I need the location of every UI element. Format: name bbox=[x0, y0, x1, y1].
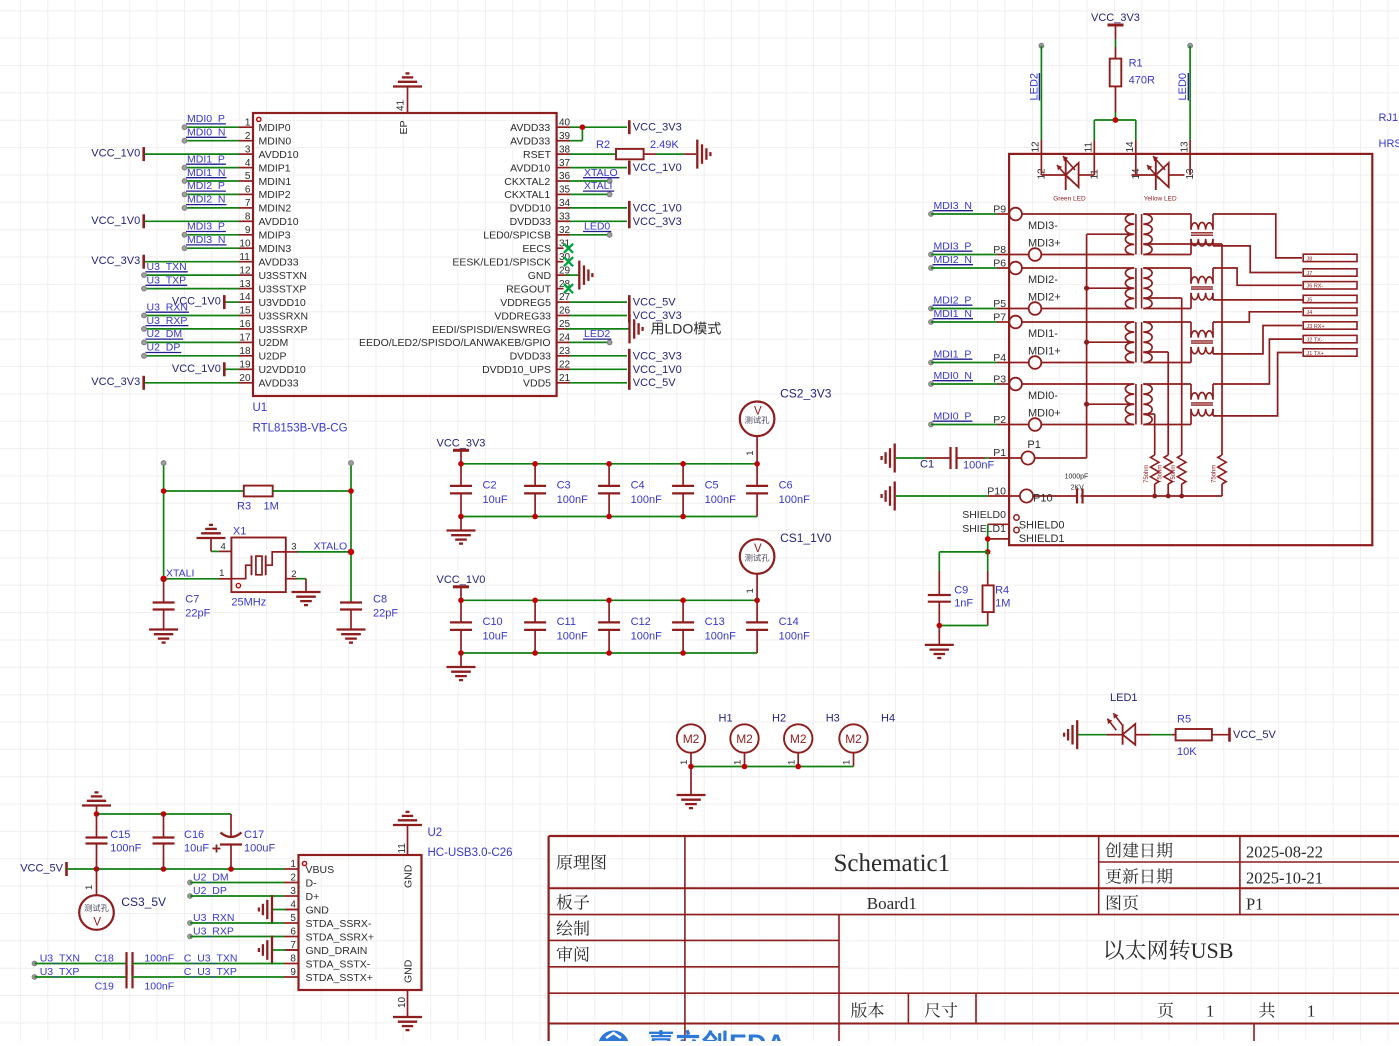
svg-text:V: V bbox=[754, 543, 762, 555]
resistor R4 1M bbox=[987, 552, 989, 571]
svg-text:U3VDD10: U3VDD10 bbox=[259, 297, 306, 309]
transformer T1 bbox=[1125, 214, 1134, 255]
svg-text:SHIELD1: SHIELD1 bbox=[1019, 533, 1065, 545]
svg-text:2.49K: 2.49K bbox=[650, 139, 679, 151]
ground at pin 11 bbox=[393, 824, 422, 826]
svg-text:MDIP1: MDIP1 bbox=[259, 162, 291, 174]
svg-text:VCC_5V: VCC_5V bbox=[633, 297, 676, 309]
svg-text:100nF: 100nF bbox=[705, 630, 736, 642]
svg-text:23: 23 bbox=[559, 346, 571, 357]
pin J5 bbox=[1303, 295, 1357, 302]
connector RJ1 HR911105A box bbox=[1009, 154, 1372, 545]
test point CS2_3V3 bbox=[740, 402, 775, 437]
primary center-tap bus to P1 bbox=[1086, 234, 1088, 458]
svg-text:C18: C18 bbox=[95, 952, 114, 964]
svg-text:35: 35 bbox=[559, 185, 571, 196]
svg-text:2: 2 bbox=[291, 569, 296, 580]
resistor 75ohm bbox=[1164, 455, 1172, 484]
choke CH3 leads bbox=[1143, 321, 1191, 323]
U1 pin 33 DVDD33 bbox=[557, 220, 570, 222]
svg-text:C14: C14 bbox=[779, 616, 799, 628]
pin40/39 VCC_3V3 bbox=[570, 126, 627, 128]
svg-text:LED0/SPICSB: LED0/SPICSB bbox=[483, 230, 551, 242]
power flag VCC_3V3 pin 23 bbox=[570, 355, 627, 357]
svg-text:37: 37 bbox=[559, 158, 571, 169]
capacitor C10 10uF bbox=[460, 600, 462, 622]
svg-text:470R: 470R bbox=[1129, 75, 1155, 87]
svg-text:MDI0_P: MDI0_P bbox=[934, 410, 972, 422]
svg-text:C15: C15 bbox=[110, 829, 130, 841]
svg-text:U3_TXP: U3_TXP bbox=[147, 274, 187, 286]
svg-text:P6: P6 bbox=[993, 258, 1006, 270]
wire to J pin bbox=[1213, 312, 1302, 322]
power flag VCC_1V0 pin 19 bbox=[224, 368, 239, 370]
svg-text:4: 4 bbox=[221, 541, 226, 552]
svg-text:C16: C16 bbox=[184, 829, 204, 841]
svg-text:VCC_5V: VCC_5V bbox=[633, 377, 676, 389]
capacitor 1000pF 2KV bbox=[1076, 489, 1078, 504]
choke CH1 bbox=[1191, 222, 1213, 229]
wire cap top rail bbox=[97, 813, 232, 815]
wire + net label U3_TXP bbox=[144, 288, 239, 290]
svg-text:8: 8 bbox=[245, 212, 251, 223]
svg-text:MDI1_N: MDI1_N bbox=[187, 167, 226, 179]
svg-text:75ohm: 75ohm bbox=[1171, 465, 1177, 483]
svg-text:C12: C12 bbox=[631, 616, 651, 628]
pin P3 net MDI0_N bbox=[929, 382, 934, 387]
U1 pin 23 DVDD33 bbox=[557, 355, 570, 357]
svg-text:22pF: 22pF bbox=[373, 608, 398, 620]
ground bbox=[460, 653, 462, 667]
svg-text:C4: C4 bbox=[631, 480, 645, 492]
svg-text:LED1: LED1 bbox=[1110, 692, 1138, 704]
svg-text:VCC_1V0: VCC_1V0 bbox=[91, 148, 140, 160]
wire right vertical bbox=[350, 463, 352, 603]
svg-text:MDI3_P: MDI3_P bbox=[187, 221, 225, 233]
ground at P10 bbox=[894, 482, 896, 511]
capacitor C5 100nF bbox=[682, 464, 684, 486]
U1 pin 40 AVDD33 bbox=[557, 126, 570, 128]
power flag VCC_1V0 pin 3 bbox=[144, 153, 239, 155]
svg-text:5: 5 bbox=[290, 913, 296, 924]
svg-text:LED2: LED2 bbox=[1028, 73, 1040, 101]
chip U1 RTL8153B-VB-CG bbox=[253, 113, 557, 396]
svg-text:U2_DM: U2_DM bbox=[147, 328, 183, 340]
svg-text:36: 36 bbox=[559, 171, 571, 182]
U2 pin 10 GND bottom bbox=[407, 990, 409, 1017]
svg-text:MDIN3: MDIN3 bbox=[259, 243, 292, 255]
svg-text:U3SSRXP: U3SSRXP bbox=[259, 324, 308, 336]
primary center tap T4 bbox=[1087, 403, 1135, 405]
svg-text:U3_TXP: U3_TXP bbox=[40, 966, 80, 978]
svg-text:MDI0_N: MDI0_N bbox=[934, 370, 973, 382]
wire to J pin bbox=[1213, 214, 1302, 258]
ground for mounting holes bbox=[690, 767, 692, 796]
pin P9 net MDI3_N bbox=[929, 212, 934, 217]
svg-text:GND_DRAIN: GND_DRAIN bbox=[306, 945, 368, 957]
svg-text:5: 5 bbox=[245, 171, 251, 182]
wire + net label XTALO bbox=[570, 180, 610, 182]
U1 pin 20 AVDD33 bbox=[239, 382, 253, 384]
svg-text:100nF: 100nF bbox=[705, 494, 736, 506]
svg-text:GND: GND bbox=[306, 904, 330, 916]
wire bottom rail bbox=[461, 516, 757, 518]
wire + net label MDI0_N bbox=[185, 140, 240, 142]
svg-text:J3 RX+: J3 RX+ bbox=[1307, 324, 1325, 330]
X1 pin4 to ground bbox=[219, 550, 232, 552]
svg-text:100uF: 100uF bbox=[244, 843, 275, 855]
svg-text:MDI1_P: MDI1_P bbox=[934, 348, 972, 360]
U1 pin 39 AVDD33 bbox=[557, 140, 570, 142]
mounting hole H1 M2 bbox=[677, 724, 705, 752]
svg-text:MDI2_P: MDI2_P bbox=[187, 180, 225, 192]
svg-text:V: V bbox=[754, 405, 762, 417]
svg-text:GND: GND bbox=[528, 270, 552, 282]
Yellow LED inside RJ45 bbox=[1132, 174, 1156, 176]
capacitor C2 10uF bbox=[460, 464, 462, 486]
svg-text:100nF: 100nF bbox=[110, 843, 141, 855]
svg-text:MDIN2: MDIN2 bbox=[259, 203, 292, 215]
wire LED junction bbox=[1094, 119, 1136, 121]
svg-text:100nF: 100nF bbox=[557, 494, 588, 506]
U1 pin 10 MDIN3 bbox=[239, 247, 253, 249]
svg-text:J4: J4 bbox=[1307, 310, 1313, 316]
svg-text:MDI2-: MDI2- bbox=[1028, 274, 1058, 286]
svg-text:DVDD33: DVDD33 bbox=[510, 351, 552, 363]
Green LED inside RJ45 bbox=[1041, 174, 1065, 176]
svg-text:C13: C13 bbox=[705, 616, 725, 628]
wire + net label MDI3_P bbox=[185, 234, 240, 236]
svg-text:U2VDD10: U2VDD10 bbox=[259, 364, 306, 376]
svg-text:75ohm: 75ohm bbox=[1212, 465, 1218, 483]
svg-text:40: 40 bbox=[559, 117, 571, 128]
svg-text:X1: X1 bbox=[233, 526, 246, 538]
svg-text:EDA: EDA bbox=[729, 1029, 786, 1041]
pin J4 bbox=[1303, 308, 1357, 315]
choke CH4 leads bbox=[1143, 383, 1191, 385]
capacitor C13 100nF bbox=[682, 600, 684, 622]
U1 pin 27 VDDREG5 bbox=[557, 301, 570, 303]
wire 75ohm bottom rail bbox=[1081, 495, 1222, 497]
power flag VCC_5V pin 27 bbox=[570, 301, 627, 303]
capacitor C9 1nF bbox=[928, 594, 951, 596]
svg-text:MDI1+: MDI1+ bbox=[1028, 346, 1061, 358]
svg-text:75ohm: 75ohm bbox=[1158, 465, 1164, 483]
svg-text:RJ1: RJ1 bbox=[1379, 112, 1399, 124]
svg-text:M2: M2 bbox=[790, 732, 807, 746]
crystal X1 25MHz bbox=[231, 538, 285, 593]
svg-text:100nF: 100nF bbox=[144, 980, 174, 992]
svg-text:32: 32 bbox=[559, 225, 571, 236]
test point CS3_5V bbox=[96, 869, 98, 895]
U2 pin 7 GND_DRAIN bbox=[284, 949, 299, 951]
svg-text:M2: M2 bbox=[845, 732, 862, 746]
svg-text:VCC_5V: VCC_5V bbox=[1233, 729, 1276, 741]
U2 pin 11 GND top bbox=[407, 828, 409, 855]
svg-text:100nF: 100nF bbox=[779, 494, 810, 506]
svg-text:75ohm: 75ohm bbox=[1144, 465, 1150, 483]
wire + net label MDI3_N bbox=[185, 247, 240, 249]
svg-text:10uF: 10uF bbox=[184, 843, 209, 855]
no-connect X pin31 bbox=[564, 244, 573, 253]
svg-text:AVDD10: AVDD10 bbox=[510, 162, 550, 174]
U1 pin 18 U2DP bbox=[239, 355, 253, 357]
svg-text:MDI0+: MDI0+ bbox=[1028, 408, 1061, 420]
resistor R3 1M bbox=[164, 490, 244, 492]
choke CH2 bbox=[1191, 276, 1213, 283]
U1 pin 15 U3SSRXN bbox=[239, 315, 253, 317]
svg-text:J5: J5 bbox=[1307, 297, 1313, 303]
svg-text:MDIN0: MDIN0 bbox=[259, 136, 292, 148]
svg-text:P4: P4 bbox=[993, 352, 1006, 364]
wire LED2 bbox=[1039, 43, 1044, 48]
wire + net label U2_DP bbox=[144, 355, 239, 357]
wire + net label U3_TXN bbox=[144, 274, 239, 276]
power flag VCC_1V0 bbox=[453, 585, 469, 588]
svg-text:CS3_5V: CS3_5V bbox=[121, 895, 166, 909]
svg-text:P10: P10 bbox=[987, 486, 1006, 498]
svg-text:11: 11 bbox=[1084, 142, 1095, 153]
ground at pin7 GND_DRAIN bbox=[273, 949, 286, 951]
U1 pin 19 U2VDD10 bbox=[239, 368, 253, 370]
svg-text:MDIP2: MDIP2 bbox=[259, 189, 291, 201]
pin P8 net MDI3_P bbox=[929, 252, 934, 257]
U1 pin 5 MDIN1 bbox=[239, 180, 253, 182]
pin P6 net MDI2_N bbox=[929, 266, 934, 271]
svg-text:3: 3 bbox=[291, 541, 296, 552]
wire + net label XTALI bbox=[570, 193, 610, 195]
wire left vertical bbox=[163, 463, 165, 579]
svg-text:VCC_3V3: VCC_3V3 bbox=[1091, 12, 1140, 24]
primary center tap T2 bbox=[1087, 287, 1135, 289]
U1 pin 31 EECS bbox=[557, 247, 564, 249]
svg-text:XTALI: XTALI bbox=[166, 568, 194, 580]
svg-text:VCC_3V3: VCC_3V3 bbox=[91, 376, 140, 388]
svg-text:Green LED: Green LED bbox=[1053, 196, 1086, 203]
svg-text:MDI2+: MDI2+ bbox=[1028, 292, 1061, 304]
U1 pin 30 EESK/LED1/SPISCK bbox=[557, 261, 564, 263]
svg-text:2: 2 bbox=[245, 131, 251, 142]
svg-text:U2: U2 bbox=[428, 827, 443, 839]
choke CH3 bbox=[1191, 330, 1213, 337]
svg-text:DVDD10_UPS: DVDD10_UPS bbox=[482, 364, 551, 376]
svg-text:P9: P9 bbox=[993, 204, 1006, 216]
svg-text:16: 16 bbox=[239, 319, 251, 330]
capacitor C15 100nF bbox=[96, 814, 98, 838]
U2 pin 8 STDA_SSTX- bbox=[284, 963, 299, 965]
connector U2 HC-USB3.0-C26 bbox=[299, 855, 422, 990]
svg-text:H1: H1 bbox=[719, 712, 733, 724]
U1 pin 13 U3SSTXP bbox=[239, 288, 253, 290]
pin P2 net MDI0_P bbox=[929, 422, 934, 427]
svg-text:Board1: Board1 bbox=[867, 894, 917, 913]
U1 pin 6 MDIP2 bbox=[239, 193, 253, 195]
svg-text:2KV: 2KV bbox=[1071, 485, 1085, 492]
secondary center tap T1 bbox=[1143, 243, 1222, 245]
ground at pin29 GND bbox=[566, 274, 579, 276]
U1 pin 4 MDIP1 bbox=[239, 167, 253, 169]
svg-text:P10: P10 bbox=[1033, 493, 1053, 505]
pin P5 net MDI2_P bbox=[929, 306, 934, 311]
svg-text:10uF: 10uF bbox=[483, 494, 508, 506]
svg-text:1: 1 bbox=[679, 760, 690, 765]
svg-text:U3_RXP: U3_RXP bbox=[193, 926, 234, 938]
resistor R1 470R bbox=[1115, 25, 1117, 39]
svg-text:11: 11 bbox=[239, 252, 250, 263]
svg-text:2025-10-21: 2025-10-21 bbox=[1246, 869, 1323, 888]
svg-text:C5: C5 bbox=[705, 480, 719, 492]
svg-text:33: 33 bbox=[559, 212, 571, 223]
U1 pin 17 U2DM bbox=[239, 341, 253, 343]
svg-text:DVDD33: DVDD33 bbox=[510, 216, 552, 228]
svg-text:25MHz: 25MHz bbox=[231, 597, 266, 609]
capacitor C8 22pF bbox=[340, 601, 362, 603]
wire + net label U3_RXP bbox=[144, 328, 239, 330]
svg-text:SHIELD0: SHIELD0 bbox=[962, 509, 1006, 521]
wire to J pin bbox=[1213, 268, 1302, 285]
transformer T3 bbox=[1125, 322, 1134, 363]
svg-text:1: 1 bbox=[1307, 1002, 1315, 1021]
svg-text:MDIP0: MDIP0 bbox=[259, 122, 291, 134]
capacitor C12 100nF bbox=[608, 600, 610, 622]
secondary center tap T2 bbox=[1143, 297, 1181, 299]
svg-text:C8: C8 bbox=[373, 594, 387, 606]
title block text bbox=[557, 854, 573, 869]
pin J8 bbox=[1303, 254, 1357, 261]
svg-text:CKXTAL2: CKXTAL2 bbox=[504, 176, 550, 188]
svg-text:C19: C19 bbox=[95, 980, 114, 992]
capacitor C14 100nF bbox=[756, 600, 758, 622]
wire to J pin bbox=[1213, 353, 1302, 416]
U1 pin 8 AVDD10 bbox=[239, 220, 253, 222]
U1 pin 14 U3VDD10 bbox=[239, 301, 253, 303]
svg-text:10: 10 bbox=[239, 238, 251, 249]
wire bottom rail bbox=[461, 652, 757, 654]
transformer T4 bbox=[1125, 384, 1134, 425]
capacitor C16 10uF bbox=[163, 814, 165, 838]
net label U3_RXP bbox=[188, 934, 193, 939]
power flag VCC_3V3 pin 11 bbox=[144, 261, 239, 263]
svg-text:MDI3_P: MDI3_P bbox=[934, 240, 972, 252]
svg-text:U3_TXN: U3_TXN bbox=[40, 952, 80, 964]
pin J6 RX- bbox=[1303, 282, 1357, 289]
U2 pin 9 STDA_SSTX+ bbox=[284, 976, 299, 978]
svg-text:VDDREG5: VDDREG5 bbox=[500, 297, 551, 309]
svg-text:3: 3 bbox=[290, 886, 296, 897]
wire + net label MDI1_P bbox=[185, 167, 240, 169]
svg-text:100nF: 100nF bbox=[631, 630, 662, 642]
svg-text:U2DP: U2DP bbox=[259, 351, 287, 363]
svg-text:EESK/LED1/SPISCK: EESK/LED1/SPISCK bbox=[452, 257, 551, 269]
svg-text:C11: C11 bbox=[557, 616, 576, 628]
svg-text:1: 1 bbox=[733, 760, 744, 765]
svg-text:SHIELD0: SHIELD0 bbox=[1019, 520, 1065, 532]
svg-text:VCC_1V0: VCC_1V0 bbox=[437, 574, 486, 586]
svg-text:MDI3-: MDI3- bbox=[1028, 220, 1058, 232]
U1 pin 9 MDIP3 bbox=[239, 234, 253, 236]
svg-text:VDDREG33: VDDREG33 bbox=[494, 310, 551, 322]
svg-text:HRS911105A: HRS911105A bbox=[1379, 138, 1399, 150]
power flag VCC_3V3 bbox=[453, 449, 469, 452]
power flag VCC_3V3 pin 33 bbox=[570, 220, 627, 222]
U2 pin 2 D- bbox=[284, 882, 299, 884]
choke CH2 leads bbox=[1143, 267, 1191, 269]
svg-text:13: 13 bbox=[239, 279, 251, 290]
svg-text:H2: H2 bbox=[772, 712, 786, 724]
svg-text:D-: D- bbox=[306, 877, 318, 889]
svg-text:EEDO/LED2/SPISDO/LANWAKEB/GPIO: EEDO/LED2/SPISDO/LANWAKEB/GPIO bbox=[359, 337, 551, 349]
svg-text:34: 34 bbox=[559, 198, 571, 209]
svg-text:MDI2_N: MDI2_N bbox=[934, 254, 973, 266]
mounting hole H3 M2 bbox=[784, 724, 812, 752]
secondary center tap T3 bbox=[1143, 351, 1168, 353]
pin P10 bbox=[1033, 495, 1077, 497]
capacitor C4 100nF bbox=[608, 464, 610, 486]
choke CH1 leads bbox=[1143, 213, 1191, 215]
power flag VCC_5V right bbox=[1228, 728, 1231, 742]
ground left of LED1 bbox=[1076, 720, 1078, 749]
capacitor C6 100nF bbox=[756, 464, 758, 486]
wire VBUS rail bbox=[67, 868, 285, 870]
U1 pin 37 AVDD10 bbox=[557, 167, 570, 169]
svg-text:LED0: LED0 bbox=[1177, 73, 1189, 101]
X1 pin3 XTALO bbox=[286, 551, 298, 553]
pin P7 net MDI1_N bbox=[929, 320, 934, 325]
U1 pin 11 AVDD33 bbox=[239, 261, 253, 263]
U2 pin 6 STDA_SSRX+ bbox=[284, 936, 299, 938]
svg-text:J2 TX-: J2 TX- bbox=[1307, 338, 1323, 344]
transformer T2 bbox=[1125, 268, 1134, 309]
svg-text:XTALO: XTALO bbox=[314, 541, 348, 553]
svg-text:P8: P8 bbox=[993, 244, 1006, 256]
svg-text:2025-08-22: 2025-08-22 bbox=[1246, 843, 1323, 862]
svg-text:C10: C10 bbox=[483, 616, 503, 628]
mounting hole H4 M2 bbox=[839, 724, 867, 752]
svg-text:STDA_SSRX+: STDA_SSRX+ bbox=[306, 931, 375, 943]
svg-text:11: 11 bbox=[397, 843, 408, 854]
svg-text:VCC_3V3: VCC_3V3 bbox=[633, 216, 682, 228]
resistor R5 10K bbox=[1176, 729, 1212, 740]
ground at C7 bbox=[149, 628, 178, 630]
net label U2_DP bbox=[188, 894, 193, 899]
svg-text:1: 1 bbox=[290, 859, 296, 870]
svg-text:LED2: LED2 bbox=[584, 328, 610, 340]
wire top rail bbox=[461, 599, 757, 601]
svg-text:100nF: 100nF bbox=[144, 952, 174, 964]
svg-text:CS2_3V3: CS2_3V3 bbox=[780, 387, 832, 401]
wire shield to RC bbox=[987, 524, 989, 552]
svg-text:C17: C17 bbox=[244, 829, 264, 841]
U1 pin 25 EEDI/SPISDI/ENSWREG bbox=[557, 328, 570, 330]
svg-text:1M: 1M bbox=[995, 597, 1010, 609]
svg-text:U1: U1 bbox=[253, 402, 268, 414]
svg-text:1: 1 bbox=[745, 588, 756, 593]
U1 pin 12 U3SSTXN bbox=[239, 274, 253, 276]
power flag VCC_5V bbox=[65, 862, 68, 876]
wire LED0 bbox=[1188, 43, 1193, 48]
resistor R2 2.49K bbox=[570, 153, 616, 155]
svg-text:C6: C6 bbox=[779, 480, 793, 492]
ground at C8 bbox=[337, 628, 366, 630]
power flag VCC_5V pin 21 bbox=[570, 382, 627, 384]
svg-text:J7: J7 bbox=[1307, 271, 1313, 277]
ground at EP bbox=[393, 85, 422, 87]
svg-text:DVDD10: DVDD10 bbox=[510, 203, 552, 215]
svg-text:1M: 1M bbox=[264, 501, 279, 513]
svg-text:P2: P2 bbox=[993, 414, 1006, 426]
ground below C9/R4 bbox=[938, 626, 940, 645]
svg-text:U3SSRXN: U3SSRXN bbox=[259, 310, 309, 322]
